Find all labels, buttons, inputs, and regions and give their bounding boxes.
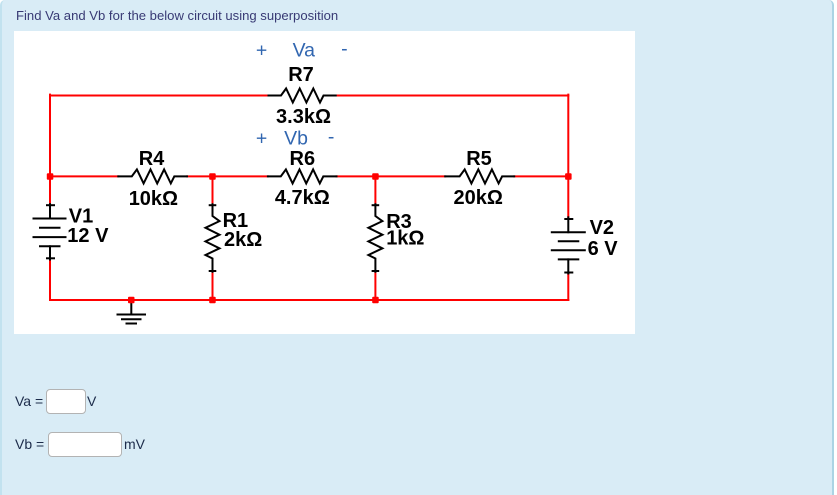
white schematic area	[14, 31, 635, 334]
resistor R3 symbol (vertical)	[368, 204, 382, 271]
wire: top rail right segment	[336, 95, 569, 97]
svg-text:3.3kΩ: 3.3kΩ	[276, 106, 331, 128]
wire: middle rail segment 1	[50, 175, 118, 177]
node dot: right-middle junction	[565, 173, 572, 180]
node dot: R1 bottom junction	[209, 297, 216, 304]
wire: R3 bottom stub	[374, 272, 376, 300]
node dot: left-middle junction	[47, 173, 54, 180]
node dot: R1 top junction	[209, 173, 216, 180]
wire: top rail left segment	[50, 95, 269, 97]
svg-text:+: +	[256, 40, 267, 62]
svg-text:4.7kΩ: 4.7kΩ	[275, 187, 330, 209]
wire: V1 bottom stub	[49, 260, 51, 301]
node dot: R3 top junction	[372, 173, 379, 180]
resistor R4 symbol	[118, 169, 187, 183]
resistor R6 symbol	[268, 169, 337, 183]
wire: right vertical (top rail to V2)	[567, 95, 569, 218]
wire: bottom rail	[50, 299, 568, 301]
svg-text:Vb: Vb	[284, 127, 308, 149]
wire: middle rail segment 4	[514, 175, 568, 177]
svg-text:R4: R4	[139, 148, 165, 170]
battery V2 symbol	[552, 217, 585, 273]
question title	[16, 8, 338, 23]
wire: R1 bottom stub	[212, 272, 214, 300]
svg-text:2kΩ: 2kΩ	[224, 229, 262, 251]
resistor R5 symbol	[445, 169, 514, 183]
battery V1 symbol	[34, 204, 66, 259]
svg-text:20kΩ: 20kΩ	[453, 187, 502, 209]
wire: R3 top stub	[374, 176, 376, 204]
resistor R1 symbol (vertical)	[206, 204, 220, 271]
answer row Vb	[15, 436, 44, 452]
svg-text:+: +	[256, 127, 267, 149]
wire: left vertical (top rail to V1)	[49, 95, 51, 205]
svg-text:V2: V2	[590, 217, 614, 239]
svg-text:12 V: 12 V	[67, 225, 109, 247]
answer row Va	[15, 393, 43, 409]
node dot: R3 bottom junction	[372, 297, 379, 304]
svg-text:1kΩ: 1kΩ	[386, 228, 424, 250]
ground symbol	[118, 300, 146, 324]
svg-text:-: -	[341, 38, 348, 60]
svg-text:R6: R6	[290, 148, 316, 170]
svg-text:R5: R5	[466, 148, 492, 170]
svg-text:R7: R7	[288, 64, 314, 86]
wire: middle rail segment 3	[337, 175, 446, 177]
resistor R7 symbol	[269, 89, 336, 103]
wire: middle rail segment 2	[187, 175, 268, 177]
svg-text:-: -	[328, 126, 335, 148]
svg-text:Va: Va	[293, 40, 316, 62]
node dot: ground junction	[128, 297, 135, 304]
wire: V2 bottom stub	[567, 274, 569, 301]
svg-text:6 V: 6 V	[588, 238, 619, 260]
wire: R1 top stub	[212, 176, 214, 204]
svg-text:10kΩ: 10kΩ	[129, 188, 178, 210]
